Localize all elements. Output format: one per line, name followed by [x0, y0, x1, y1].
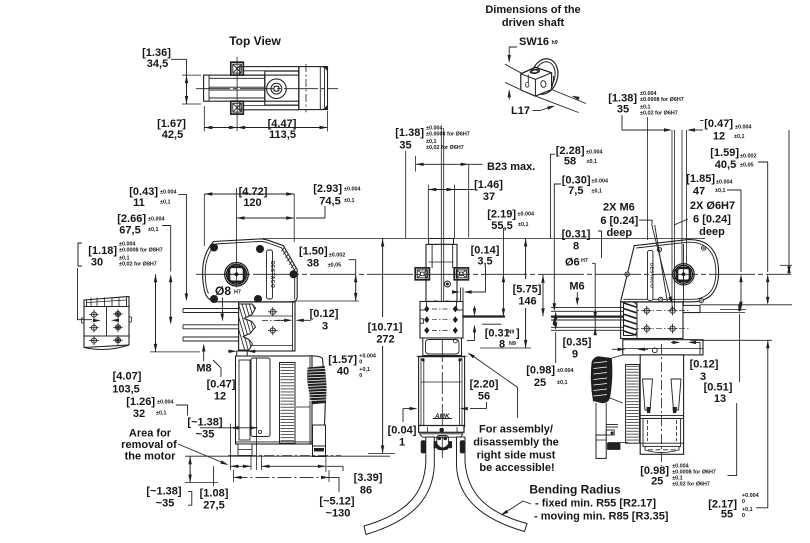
svg-text:~130: ~130 — [326, 508, 351, 520]
svg-text:±0.004: ±0.004 — [157, 400, 173, 406]
svg-text:[2.93]: [2.93] — [313, 183, 342, 195]
svg-text:deep: deep — [606, 227, 632, 239]
svg-text:37: 37 — [483, 191, 495, 203]
svg-text:272: 272 — [376, 334, 394, 346]
svg-text:[1.08]: [1.08] — [200, 488, 229, 500]
svg-text:[1.18]: [1.18] — [88, 245, 117, 257]
svg-text:removal of: removal of — [121, 439, 177, 451]
svg-text:[5.75]: [5.75] — [513, 284, 542, 296]
svg-text:[0.47]: [0.47] — [704, 118, 733, 130]
svg-text:[1.26]: [1.26] — [126, 396, 155, 408]
svg-text:±0,02 for Ø8H7: ±0,02 for Ø8H7 — [119, 262, 157, 268]
svg-text:[~1.38]: [~1.38] — [187, 417, 222, 429]
svg-text:103,5: 103,5 — [112, 384, 140, 396]
svg-text:12: 12 — [214, 391, 226, 403]
svg-text:55,5: 55,5 — [491, 220, 512, 232]
svg-text:0: 0 — [742, 499, 745, 505]
svg-text:]: ] — [516, 328, 520, 340]
svg-text:±0,05: ±0,05 — [740, 163, 753, 169]
svg-text:±0.004: ±0.004 — [586, 150, 602, 156]
svg-text:[1.59]: [1.59] — [710, 147, 739, 159]
svg-text:0: 0 — [359, 373, 362, 379]
svg-text:[2.20]: [2.20] — [470, 379, 499, 391]
svg-text:[3.39]: [3.39] — [354, 472, 383, 484]
svg-text:±0.004: ±0.004 — [557, 368, 573, 374]
svg-text:6 [0.24]: 6 [0.24] — [600, 215, 638, 227]
svg-text:40: 40 — [337, 366, 349, 378]
svg-text:25: 25 — [651, 475, 663, 487]
svg-text:[2.19]: [2.19] — [487, 209, 516, 221]
svg-text:146: 146 — [518, 296, 536, 308]
svg-text:~35: ~35 — [156, 498, 175, 510]
svg-text:N9: N9 — [508, 330, 515, 336]
svg-text:±0.002: ±0.002 — [740, 154, 756, 160]
svg-text:±0,1: ±0,1 — [587, 159, 597, 165]
svg-text:74,5: 74,5 — [319, 196, 340, 208]
svg-text:h9: h9 — [552, 40, 558, 46]
svg-text:the motor: the motor — [125, 451, 176, 463]
svg-text:±0,1: ±0,1 — [160, 200, 170, 206]
svg-text:±0.004: ±0.004 — [592, 179, 608, 185]
svg-text:±0.004: ±0.004 — [344, 187, 360, 193]
svg-text:- fixed min. R55 [R2.17]: - fixed min. R55 [R2.17] — [535, 498, 656, 510]
svg-text:±0.002: ±0.002 — [329, 252, 345, 258]
svg-text:Ø6: Ø6 — [565, 257, 580, 269]
svg-text:±0.004: ±0.004 — [160, 190, 176, 196]
svg-text:13: 13 — [714, 393, 726, 405]
svg-text:SW16: SW16 — [519, 36, 549, 48]
svg-text:B23 max.: B23 max. — [487, 161, 535, 173]
svg-text:56: 56 — [478, 391, 490, 403]
svg-text:disassembly the: disassembly the — [473, 437, 559, 449]
svg-text:±0,1: ±0,1 — [344, 198, 354, 204]
svg-text:12: 12 — [713, 131, 725, 143]
svg-text:[4.07]: [4.07] — [113, 371, 142, 383]
svg-text:120: 120 — [243, 197, 261, 209]
svg-text:86: 86 — [360, 485, 372, 497]
svg-text:35: 35 — [399, 140, 411, 152]
svg-text:±0.0008 for Ø6H7: ±0.0008 for Ø6H7 — [640, 97, 684, 103]
svg-text:[0.12]: [0.12] — [310, 308, 339, 320]
svg-text:DESTACO: DESTACO — [648, 263, 654, 288]
svg-text:1: 1 — [399, 437, 405, 449]
svg-text:±0,1: ±0,1 — [592, 189, 602, 195]
svg-text:11: 11 — [133, 197, 145, 209]
svg-text:Area for: Area for — [129, 428, 172, 440]
svg-text:M8: M8 — [196, 363, 211, 375]
svg-text:[1.50]: [1.50] — [299, 246, 328, 258]
svg-text:N9: N9 — [509, 341, 516, 347]
svg-text:[1.38]: [1.38] — [395, 127, 424, 139]
svg-text:40,5: 40,5 — [715, 159, 736, 171]
svg-text:±0,1: ±0,1 — [156, 411, 166, 417]
svg-text:±0.004: ±0.004 — [735, 125, 751, 131]
svg-text:8: 8 — [499, 339, 505, 351]
svg-text:[0.31]: [0.31] — [562, 229, 591, 241]
svg-text:L17: L17 — [511, 105, 530, 117]
svg-text:[2.66]: [2.66] — [117, 213, 146, 225]
svg-text:±0,02 for Ø6H7: ±0,02 for Ø6H7 — [640, 111, 678, 117]
svg-text:113,5: 113,5 — [269, 129, 296, 141]
svg-text:[0.12]: [0.12] — [690, 359, 719, 371]
svg-text:[0.51]: [0.51] — [704, 382, 733, 394]
svg-text:67,5: 67,5 — [119, 225, 140, 237]
svg-text:34,5: 34,5 — [147, 58, 168, 70]
svg-text:6 [0.24]: 6 [0.24] — [693, 214, 731, 226]
svg-text:2X Ø6H7: 2X Ø6H7 — [690, 200, 735, 212]
svg-text:[~5.12]: [~5.12] — [319, 496, 354, 508]
svg-text:42,5: 42,5 — [162, 129, 183, 141]
svg-text:M6: M6 — [569, 281, 584, 293]
svg-text:±0.004: ±0.004 — [716, 180, 732, 186]
svg-text:deep: deep — [699, 226, 725, 238]
svg-text:- moving min. R85 [R3.35]: - moving min. R85 [R3.35] — [534, 511, 669, 523]
svg-text:[0.35]: [0.35] — [563, 337, 592, 349]
svg-text:±0.0008 for Ø6H7: ±0.0008 for Ø6H7 — [672, 469, 716, 475]
svg-text:[0.98]: [0.98] — [526, 365, 555, 377]
svg-text:Bending Radius: Bending Radius — [529, 483, 621, 497]
svg-text:right side must: right side must — [477, 450, 556, 462]
svg-text:47: 47 — [693, 186, 705, 198]
svg-text:[~1.38]: [~1.38] — [146, 486, 181, 498]
svg-text:[0.31: [0.31 — [485, 328, 510, 340]
svg-text:9: 9 — [572, 349, 578, 361]
svg-text:±0,05: ±0,05 — [328, 263, 341, 269]
svg-text:±0,1: ±0,1 — [148, 227, 158, 233]
svg-text:0: 0 — [742, 513, 745, 519]
svg-text:[0.47]: [0.47] — [207, 379, 236, 391]
svg-text:30: 30 — [91, 257, 103, 269]
svg-text:driven shaft: driven shaft — [502, 17, 565, 29]
svg-text:±0,1: ±0,1 — [734, 134, 744, 140]
svg-text:Dimensions of the: Dimensions of the — [485, 4, 580, 16]
svg-text:±0.0008 for Ø6H7: ±0.0008 for Ø6H7 — [426, 132, 470, 138]
svg-text:±0,1: ±0,1 — [557, 380, 567, 386]
svg-text:58: 58 — [564, 156, 576, 168]
svg-text:32: 32 — [133, 408, 145, 420]
svg-text:±0,02 for Ø6H7: ±0,02 for Ø6H7 — [426, 145, 464, 151]
svg-text:[0.04]: [0.04] — [388, 425, 417, 437]
svg-text:be accessible!: be accessible! — [479, 462, 554, 474]
svg-text:[1.46]: [1.46] — [474, 179, 503, 191]
svg-text:3: 3 — [322, 321, 328, 333]
svg-text:For assembly/: For assembly/ — [479, 424, 553, 436]
svg-text:[1.57]: [1.57] — [328, 354, 357, 366]
svg-text:±0,02 for Ø6H7: ±0,02 for Ø6H7 — [672, 482, 710, 488]
svg-text:55: 55 — [721, 509, 733, 521]
svg-text:Top View: Top View — [229, 34, 281, 48]
svg-text:±0.004: ±0.004 — [518, 212, 534, 218]
svg-text:25: 25 — [534, 377, 546, 389]
svg-text:±0.0008 for Ø8H7: ±0.0008 for Ø8H7 — [119, 248, 163, 254]
svg-text:7,5: 7,5 — [568, 185, 583, 197]
svg-text:±0,1: ±0,1 — [715, 188, 725, 194]
svg-text:8: 8 — [573, 241, 579, 253]
svg-text:[10.71]: [10.71] — [368, 322, 403, 334]
svg-text:3,5: 3,5 — [477, 256, 492, 268]
svg-text:[1.85]: [1.85] — [686, 173, 715, 185]
svg-text:~35: ~35 — [196, 429, 215, 441]
svg-text:H7: H7 — [581, 258, 588, 264]
svg-text:±0.004: ±0.004 — [148, 217, 164, 223]
svg-text:35: 35 — [617, 104, 629, 116]
svg-text:27,5: 27,5 — [203, 500, 224, 512]
svg-text:±0,1: ±0,1 — [518, 222, 528, 228]
svg-text:2X M6: 2X M6 — [603, 201, 635, 213]
svg-text:Ø8: Ø8 — [215, 284, 231, 298]
svg-text:0: 0 — [359, 359, 362, 365]
svg-text:H7: H7 — [234, 290, 241, 296]
svg-text:38: 38 — [307, 258, 319, 270]
